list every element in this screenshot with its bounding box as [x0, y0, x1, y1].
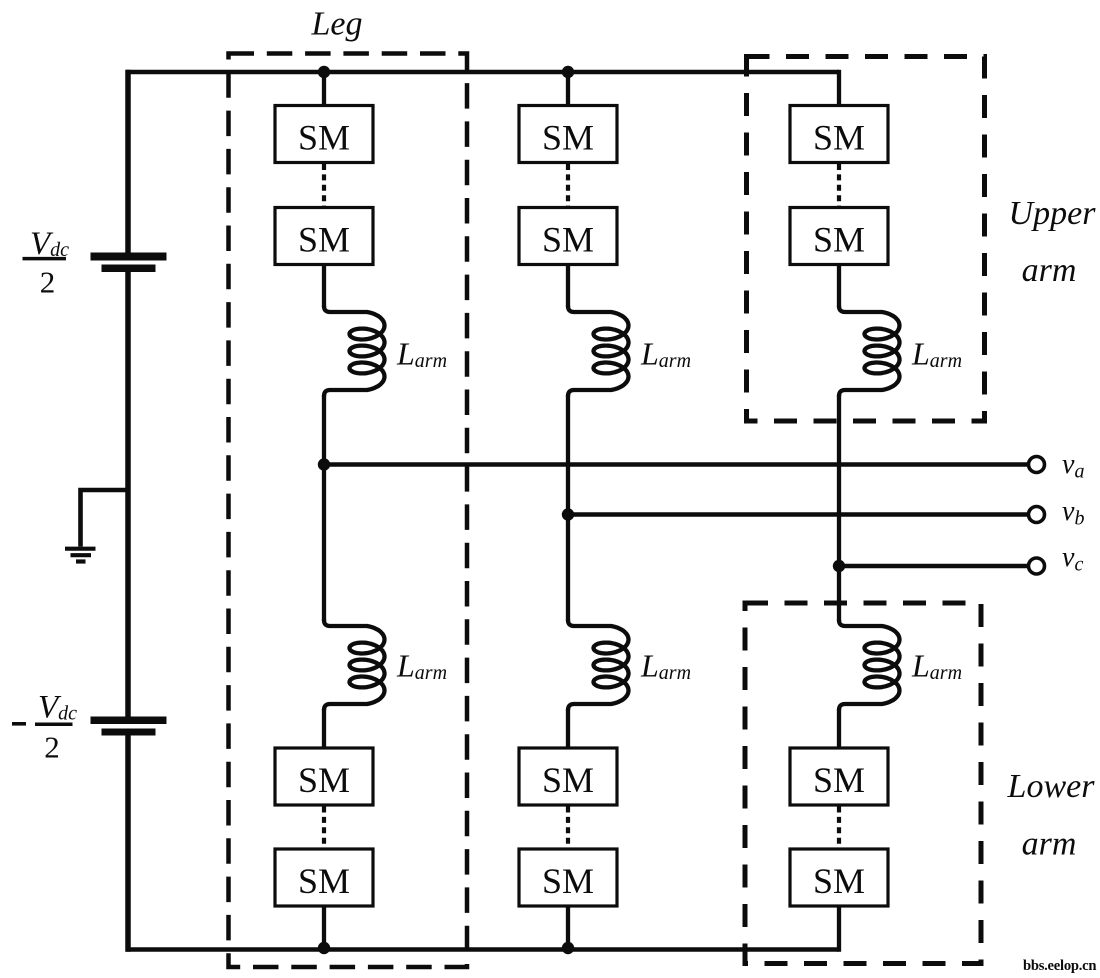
- node va tap junction: [318, 458, 330, 470]
- wire leg c middle (inductor to inductor through output node): [837, 395, 841, 621]
- submodule SM6 (upper arm b, last): [519, 208, 617, 265]
- svg-text:SM: SM: [298, 220, 350, 260]
- node leg a / bottom bus junction: [318, 942, 330, 954]
- svg-text:SM: SM: [813, 220, 865, 260]
- wire leg b bottom connection: [566, 906, 570, 952]
- label Upper arm: [1009, 195, 1097, 289]
- wire AC output phase b: [568, 512, 1028, 516]
- battery Vdc/2 (long plate): [91, 253, 167, 261]
- wire dotted (more SMs) upper arm c: [837, 164, 841, 206]
- submodule SM10 (upper arm c, last): [790, 208, 888, 265]
- svg-text:arm: arm: [1022, 252, 1077, 289]
- wire bottom DC bus: [126, 947, 839, 952]
- node leg b / top bus junction: [562, 66, 574, 78]
- svg-text:SM: SM: [542, 220, 594, 260]
- svg-text:Leg: Leg: [311, 6, 363, 43]
- inductor Larm upper arm c: [839, 306, 900, 396]
- inductor Larm lower arm b: [568, 620, 629, 710]
- wire leg b top connection: [566, 70, 570, 106]
- submodule SM11 (lower arm c, first): [790, 748, 888, 805]
- wire dotted (more SMs) lower arm c: [837, 807, 841, 848]
- node vb tap junction: [562, 508, 574, 520]
- wire AC output phase c: [839, 564, 1028, 568]
- submodule SM8 (lower arm b, last): [519, 849, 617, 906]
- submodule SM12 (lower arm c, last): [790, 849, 888, 906]
- wire left DC rail upper segment: [125, 70, 131, 253]
- inductor Larm upper arm a: [324, 306, 385, 396]
- submodule SM3 (lower arm a, first): [275, 748, 373, 805]
- wire ground branch: [81, 490, 129, 547]
- submodule SM9 (upper arm c, first): [790, 106, 888, 163]
- wire leg b middle (inductor to inductor through output node): [566, 395, 570, 621]
- wire AC output phase a: [324, 462, 1028, 466]
- submodule SM1 (upper arm a, first): [275, 106, 373, 163]
- inductor Larm upper arm b: [568, 306, 629, 396]
- svg-text:arm: arm: [1022, 826, 1077, 863]
- wire lower arm c inductor to SM: [837, 709, 841, 748]
- battery -Vdc/2 (long plate): [91, 717, 167, 725]
- label +Vdc/2: [23, 226, 70, 300]
- svg-text:Lower: Lower: [1007, 768, 1096, 805]
- battery -Vdc/2 (short plate): [102, 729, 156, 736]
- svg-text:SM: SM: [542, 118, 594, 158]
- svg-text:SM: SM: [542, 760, 594, 800]
- wire top DC bus: [126, 70, 839, 75]
- wire leg a middle (inductor to inductor through output node): [322, 395, 326, 621]
- wire dotted (more SMs) lower arm a: [322, 807, 326, 848]
- wire dotted (more SMs) lower arm b: [566, 807, 570, 848]
- label -Vdc/2: [12, 690, 77, 765]
- submodule SM7 (lower arm b, first): [519, 748, 617, 805]
- svg-text:SM: SM: [298, 118, 350, 158]
- inductor Larm lower arm a: [324, 620, 385, 710]
- wire dotted (more SMs) upper arm b: [566, 164, 570, 206]
- wire leg a bottom connection: [322, 906, 326, 952]
- svg-text:SM: SM: [298, 760, 350, 800]
- submodule SM5 (upper arm b, first): [519, 106, 617, 163]
- Leg boundary (dashed box): [229, 54, 468, 968]
- wire left DC rail lower segment: [125, 735, 131, 952]
- node vc tap junction: [833, 560, 845, 572]
- wire upper arm a SM to inductor: [322, 265, 326, 308]
- wire upper arm b SM to inductor: [566, 265, 570, 308]
- svg-text:SM: SM: [298, 861, 350, 901]
- terminal vc (open circle): [1029, 558, 1045, 574]
- svg-text:SM: SM: [813, 861, 865, 901]
- wire dotted (more SMs) upper arm a: [322, 164, 326, 206]
- wire leg c top connection: [837, 70, 841, 106]
- svg-text:2: 2: [40, 265, 56, 300]
- svg-text:2: 2: [44, 730, 60, 765]
- battery Vdc/2 (short plate): [102, 265, 156, 273]
- wire lower arm a inductor to SM: [322, 709, 326, 748]
- wire lower arm b inductor to SM: [566, 709, 570, 748]
- submodule SM2 (upper arm a, last): [275, 208, 373, 265]
- inductor Larm lower arm c: [839, 620, 900, 710]
- Upper arm boundary (dashed box): [747, 57, 985, 422]
- node leg b / bottom bus junction: [562, 942, 574, 954]
- svg-text:SM: SM: [813, 760, 865, 800]
- wire upper arm c SM to inductor: [837, 265, 841, 308]
- wire leg c bottom connection: [837, 906, 841, 952]
- wire leg a top connection: [322, 70, 326, 106]
- node leg a / top bus junction: [318, 66, 330, 78]
- Lower arm boundary (dashed box): [745, 603, 981, 964]
- label Lower arm: [1007, 768, 1096, 863]
- terminal va (open circle): [1029, 457, 1045, 473]
- svg-text:SM: SM: [542, 861, 594, 901]
- svg-text:bbs.eelop.cn: bbs.eelop.cn: [1023, 958, 1096, 974]
- terminal vb (open circle): [1029, 507, 1045, 523]
- ground: [65, 549, 96, 562]
- svg-text:Upper: Upper: [1009, 195, 1097, 232]
- svg-text:SM: SM: [813, 118, 865, 158]
- wire left DC rail middle segment: [125, 272, 131, 717]
- submodule SM4 (lower arm a, last): [275, 849, 373, 906]
